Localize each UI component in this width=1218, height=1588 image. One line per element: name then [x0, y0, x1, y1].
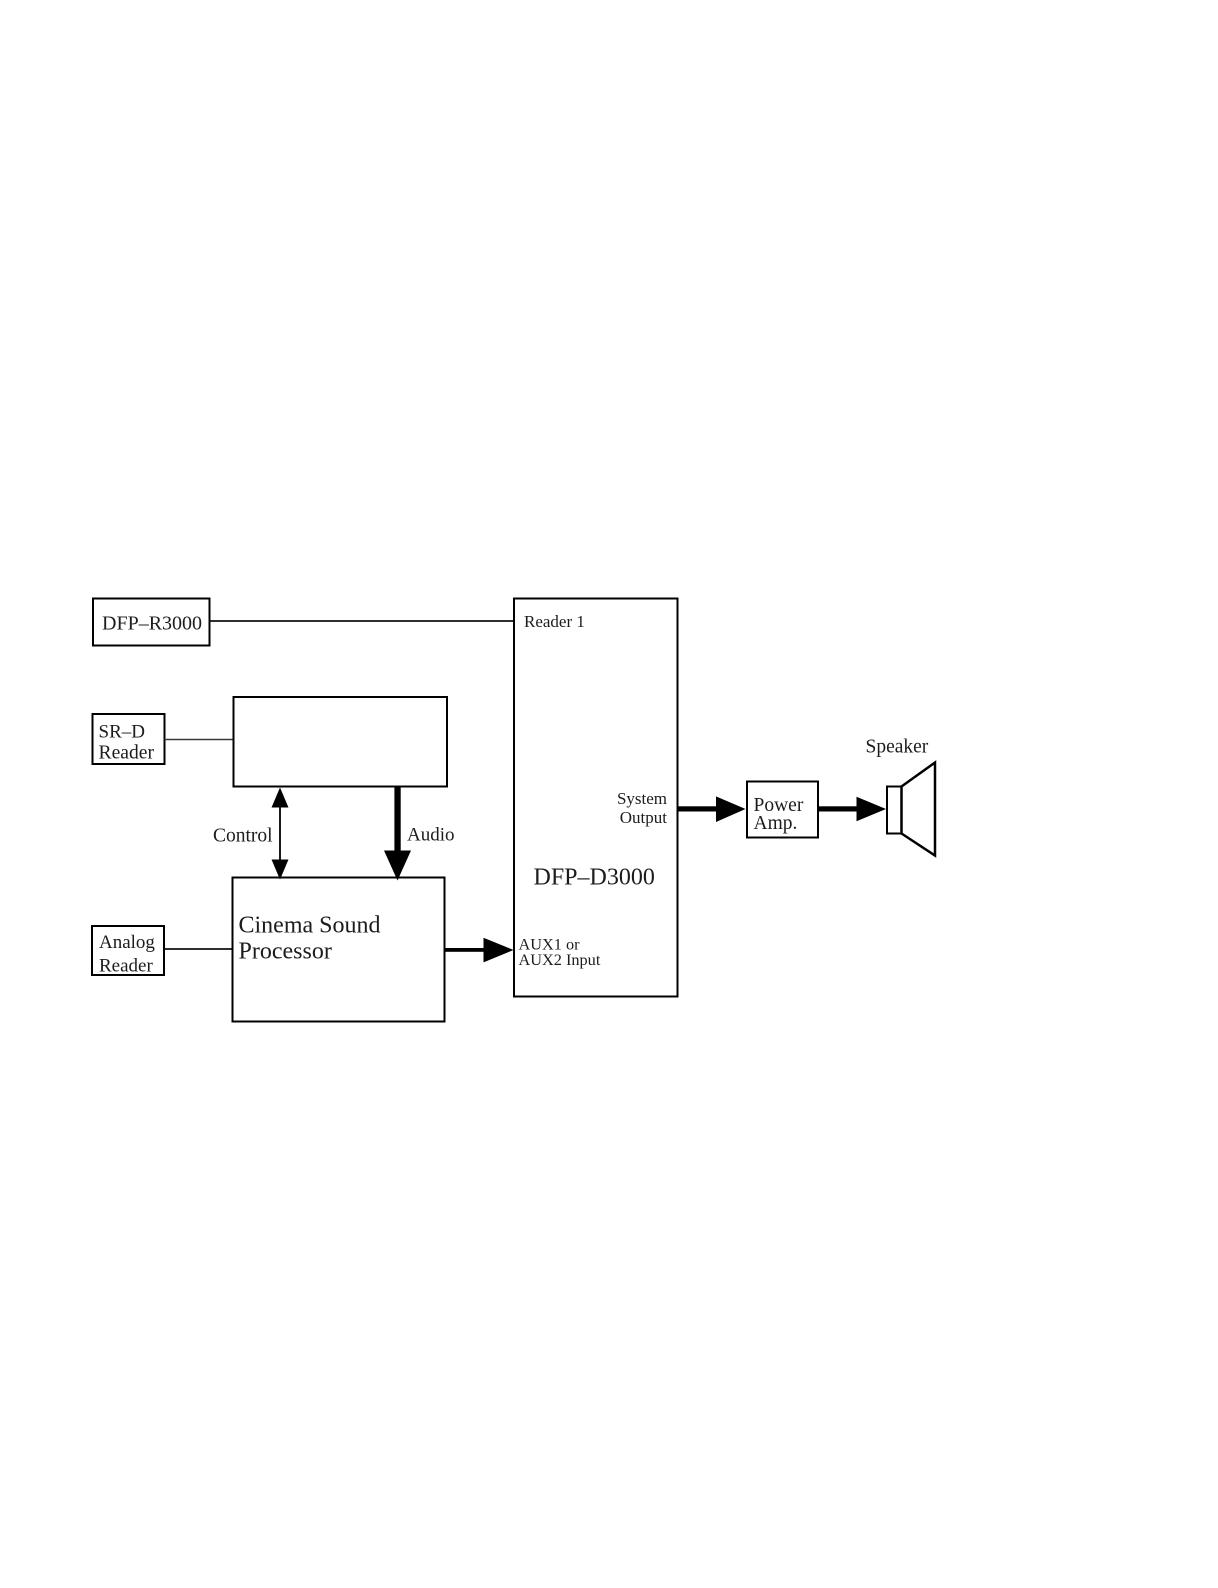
svg-text:System: System	[617, 789, 667, 808]
arrow Cinema Sound Processor to AUX input (thick)	[444, 938, 514, 963]
arrow Control (double-headed)	[272, 788, 289, 880]
svg-text:SR–D: SR–D	[99, 722, 145, 743]
wire DFP-R3000 to Reader 1	[209, 620, 515, 622]
arrow Power Amp to Speaker (thick)	[818, 797, 886, 821]
svg-text:Speaker: Speaker	[866, 737, 929, 758]
svg-text:Reader: Reader	[99, 743, 155, 764]
box DFP-R3000	[93, 599, 210, 646]
svg-text:Audio: Audio	[407, 825, 455, 846]
box unlabeled SR-D adapter	[234, 697, 448, 787]
svg-text:DFP–R3000: DFP–R3000	[102, 613, 202, 635]
box Power Amp	[747, 782, 818, 838]
svg-text:Output: Output	[620, 808, 668, 827]
wire Analog Reader to Cinema Sound Processor	[164, 948, 233, 950]
arrow Audio (thick)	[384, 787, 411, 881]
arrow System Output to Power Amp (thick)	[678, 796, 746, 822]
svg-text:Control: Control	[213, 826, 273, 847]
svg-text:Analog: Analog	[99, 932, 155, 953]
box SR-D Reader	[93, 714, 165, 764]
svg-text:Cinema Sound: Cinema Sound	[239, 913, 381, 939]
box DFP-D3000	[514, 599, 678, 997]
box Cinema Sound Processor	[233, 878, 445, 1022]
svg-text:DFP–D3000: DFP–D3000	[534, 865, 655, 891]
speaker horn	[902, 763, 936, 856]
wire SR-D Reader to SR-D box	[165, 739, 234, 741]
svg-text:Amp.: Amp.	[754, 813, 798, 834]
speaker driver box	[887, 787, 902, 834]
svg-text:Reader 1: Reader 1	[524, 612, 585, 631]
svg-text:Reader: Reader	[99, 956, 153, 977]
svg-text:Processor: Processor	[239, 939, 332, 965]
svg-text:AUX2 Input: AUX2 Input	[519, 950, 601, 969]
box Analog Reader	[92, 926, 164, 977]
